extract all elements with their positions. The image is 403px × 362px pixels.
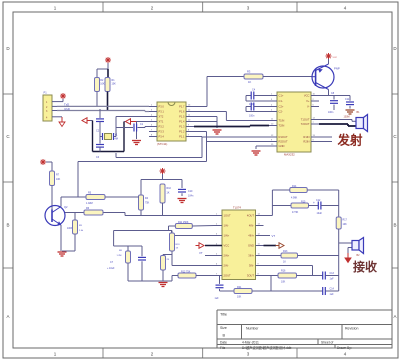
wire rail y230 from R11 junction: [114, 230, 172, 232]
title block text Revision: [345, 327, 358, 331]
resistor R21: [220, 286, 253, 299]
IC U2 MAX232 body: [269, 92, 319, 152]
resistor R6: [67, 207, 103, 230]
wire R7 to Q2: [51, 186, 53, 210]
svg-text:T1IN: T1IN: [279, 119, 285, 123]
wire R14 to right rail: [307, 190, 339, 217]
wire R2IN stub: [319, 141, 332, 143]
svg-text:10K: 10K: [100, 83, 105, 86]
svg-text:Q2: Q2: [64, 205, 68, 209]
svg-text:4IN-: 4IN-: [249, 224, 254, 228]
capacitor C8: [328, 92, 338, 114]
svg-text:R15: R15: [301, 201, 306, 204]
svg-text:VCC: VCC: [304, 94, 310, 98]
resistor R17: [336, 217, 347, 229]
wire T1IN from MCU: [194, 112, 269, 121]
wire 3IN- feedback: [264, 266, 313, 276]
svg-text:XT1: XT1: [159, 120, 164, 124]
wire R1OUT to MCU: [116, 137, 269, 158]
IC U2 label MAX232: [284, 153, 295, 157]
svg-text:R17: R17: [343, 219, 348, 222]
svg-text:T2IN: T2IN: [279, 124, 285, 128]
svg-text:RxD: RxD: [65, 107, 70, 111]
zone numbers top: [54, 6, 347, 11]
IC U2 pin names: [279, 94, 310, 149]
capacitor C4: [246, 89, 269, 107]
svg-text:1.02M: 1.02M: [86, 202, 93, 205]
resistor R19: [170, 231, 181, 252]
svg-text:1IN-: 1IN-: [224, 224, 229, 228]
svg-text:R12 75K: R12 75K: [181, 271, 191, 274]
transistor Q1 PNP: [312, 64, 340, 90]
svg-text:Title: Title: [220, 313, 227, 317]
svg-text:P1.5: P1.5: [179, 115, 185, 119]
svg-text:VCC: VCC: [333, 57, 338, 59]
svg-text:R3: R3: [247, 70, 251, 74]
svg-text:(STC11): (STC11): [157, 142, 167, 146]
svg-text:1K: 1K: [167, 192, 170, 195]
svg-text:2OUT: 2OUT: [224, 274, 232, 278]
svg-text:TL074: TL074: [233, 206, 241, 210]
wire 4OUT rail: [264, 190, 292, 216]
svg-text:GND: GND: [279, 144, 285, 148]
svg-text:2IN+: 2IN+: [224, 254, 230, 258]
resistor R9: [62, 213, 84, 252]
capacitor C1: [116, 122, 149, 132]
wire R10 down to 1OUT row: [162, 203, 164, 216]
power VCC left: [40, 159, 46, 165]
svg-text:75K: 75K: [145, 202, 150, 205]
resistor R4: [139, 195, 150, 216]
resistor R1: [105, 78, 116, 92]
resistor R10: [160, 184, 172, 203]
resistor R13: [281, 250, 298, 264]
svg-text:Sheet of: Sheet of: [321, 340, 333, 344]
svg-text:R1IN: R1IN: [303, 135, 309, 139]
svg-text:C11: C11: [345, 98, 350, 101]
wire 3IN+ row: [264, 255, 282, 257]
resistor R20: [161, 255, 173, 282]
label receive 接收: [353, 259, 377, 274]
svg-text:3IN+: 3IN+: [248, 254, 254, 258]
wire R3 to Q1 base: [263, 76, 312, 78]
title block text Number: [246, 327, 259, 331]
title block text Date row: [220, 340, 333, 344]
svg-text:VT: VT: [272, 234, 276, 238]
svg-text:103M: 103M: [344, 116, 350, 119]
IC U3 pin names: [224, 214, 255, 278]
svg-text:1uF: 1uF: [330, 293, 335, 296]
ground below arrow: [132, 122, 141, 145]
svg-text:B: B: [393, 223, 396, 228]
svg-text:4IN+: 4IN+: [248, 234, 254, 238]
wire rail down to R8 C7 tops: [114, 231, 142, 247]
svg-text:P1.3: P1.3: [179, 125, 185, 129]
svg-text:R2IN: R2IN: [303, 140, 309, 144]
wire TxD bus: [57, 102, 149, 106]
svg-text:File: File: [220, 346, 225, 350]
svg-text:4M: 4M: [115, 138, 118, 141]
capacitor C6: [215, 276, 224, 301]
ground below Q2: [58, 252, 67, 256]
svg-text:TxD: TxD: [64, 102, 69, 106]
wire crystal right rail: [116, 117, 149, 137]
svg-text:C2+: C2+: [279, 105, 284, 109]
resistor R12: [172, 271, 214, 282]
svg-text:Size: Size: [220, 326, 227, 330]
zone numbers bottom: [54, 352, 347, 357]
resistor R8: [117, 246, 131, 281]
wire bottoms to ground: [128, 280, 172, 282]
MCU U1 pin numbers: [151, 105, 191, 137]
svg-text:104n: 104n: [188, 195, 194, 198]
svg-text:10K: 10K: [56, 178, 61, 181]
capacitor C2: [96, 109, 104, 137]
svg-text:A: A: [393, 314, 396, 319]
svg-text:1uF: 1uF: [215, 297, 220, 300]
svg-text:1K: 1K: [283, 261, 286, 264]
svg-text:V-: V-: [307, 105, 310, 109]
svg-text:10K: 10K: [343, 223, 348, 226]
wire RxD bus: [57, 107, 149, 112]
svg-text:B: B: [6, 223, 9, 228]
svg-text:P3.0: P3.0: [159, 105, 165, 109]
power VCC at Q1 emitter: [326, 53, 338, 64]
svg-text:1uF: 1uF: [330, 278, 335, 281]
svg-text:T1OUT: T1OUT: [301, 118, 310, 122]
wire R17 down to speaker node: [338, 229, 340, 291]
svg-text:1OUT: 1OUT: [224, 214, 232, 218]
net label VT at 4IN+: [264, 234, 276, 238]
crystal Y1: [100, 133, 118, 141]
svg-text:4-Mar-2011: 4-Mar-2011: [242, 340, 259, 344]
wire VCC to R7: [46, 162, 52, 171]
ground arrow at U3 GND: [264, 243, 285, 249]
svg-text:10K: 10K: [281, 281, 286, 284]
transmit speaker B1: [356, 111, 368, 132]
svg-text:C14: C14: [330, 288, 335, 291]
power VCC at P1 pin1: [57, 93, 66, 102]
wire R16 to C13: [271, 276, 323, 292]
resistor R3: [244, 70, 263, 85]
svg-text:PNP: PNP: [334, 67, 340, 71]
svg-text:+: +: [313, 201, 315, 205]
svg-text:Date: Date: [220, 340, 227, 344]
svg-text:VCC: VCC: [224, 244, 230, 248]
svg-text:10K: 10K: [237, 296, 242, 299]
capacitor C7: [107, 246, 146, 281]
svg-text:4.99K: 4.99K: [291, 197, 298, 200]
wire R2 to TxD bus: [96, 92, 98, 107]
svg-text:10K: 10K: [112, 83, 117, 86]
ground arrow at P1 pin4: [57, 117, 65, 127]
svg-text:C13: C13: [330, 272, 335, 275]
MCU U1 label STC11: [157, 142, 167, 146]
MCU U1 body: [149, 102, 194, 141]
wire MAX232 GND pin to ground: [256, 146, 269, 149]
capacitor C3: [96, 137, 104, 160]
svg-text:P3.3: P3.3: [159, 130, 165, 134]
ground arrow receive: [345, 248, 351, 263]
wire MCU P1 to R3: [194, 77, 244, 107]
ground below C10: [178, 199, 187, 203]
svg-text:C10: C10: [188, 190, 193, 193]
title block frame: [217, 310, 392, 348]
wire R1IN stub: [319, 136, 332, 138]
svg-text:发射: 发射: [337, 133, 364, 148]
net label VT at 2IN+: [199, 251, 214, 256]
svg-text:+ 10uF: + 10uF: [107, 267, 115, 270]
svg-text:3IN-: 3IN-: [249, 264, 254, 268]
svg-text:C1-: C1-: [279, 99, 283, 103]
wire R5 to R4 column: [105, 196, 139, 198]
svg-text:Number: Number: [246, 327, 259, 331]
svg-text:Revision: Revision: [345, 327, 358, 331]
svg-text:R21: R21: [237, 286, 242, 289]
wire VCC mid rail: [141, 174, 182, 195]
wire crystal loop: [93, 121, 125, 152]
power VCC mid: [160, 168, 166, 174]
ground below MAX232: [252, 151, 261, 155]
svg-text:C2-: C2-: [279, 110, 283, 114]
svg-text:VT: VT: [199, 251, 203, 255]
svg-text:R1OUT: R1OUT: [279, 135, 288, 139]
capacitor C12: [309, 199, 339, 215]
svg-text:4OUT: 4OUT: [247, 214, 255, 218]
wire 3OUT to R16: [264, 275, 279, 277]
power VCC top: [105, 57, 111, 69]
svg-text:P1.1: P1.1: [179, 135, 185, 139]
svg-text:P3.1: P3.1: [159, 110, 165, 114]
zone column ticks: [103, 2, 297, 358]
ground mid bottom: [159, 283, 168, 287]
resistor R7: [50, 171, 61, 186]
power VCC arrow at U3: [196, 243, 223, 249]
wire to 1IN+: [172, 231, 215, 236]
wire 1OUT long row: [65, 213, 214, 216]
ground at MCU right: [194, 117, 222, 135]
resistor R14: [272, 185, 307, 200]
MCU U1 pin names: [159, 105, 186, 139]
zone letters right: [393, 46, 397, 319]
svg-text:R14: R14: [292, 185, 297, 188]
wire R2OUT to MCU: [78, 132, 269, 198]
svg-text:T2OUT: T2OUT: [301, 122, 310, 126]
svg-text:P1: P1: [44, 91, 48, 95]
svg-text:100n: 100n: [249, 115, 255, 118]
svg-text:R13: R13: [283, 250, 288, 253]
svg-text:D:\超声波测距\超声波测距设计.ddb: D:\超声波测距\超声波测距设计.ddb: [242, 345, 292, 350]
svg-text:XT2: XT2: [159, 115, 164, 119]
svg-text:接收: 接收: [353, 259, 377, 274]
title block text File row: [220, 345, 352, 350]
ground arrow left of crystal: [82, 118, 93, 124]
resistor R5: [86, 192, 105, 206]
svg-text:1.2M: 1.2M: [117, 255, 122, 257]
resistor R11: [169, 221, 215, 231]
svg-text:P3.2: P3.2: [159, 125, 165, 129]
IC U2 pin numbers: [271, 94, 316, 147]
wire VCC to R1 R2: [97, 69, 108, 78]
svg-text:R16: R16: [281, 270, 286, 273]
capacitor C10: [178, 189, 194, 197]
resistor R16: [278, 270, 297, 284]
wire T2OUT to transmit speaker thick: [319, 124, 356, 126]
wire R21 to C14: [252, 290, 323, 292]
wire Q1 collector down: [319, 90, 350, 96]
IC U3 TL074 body: [214, 210, 264, 280]
IC U3 pin numbers: [216, 214, 261, 276]
ground arrow mid crystal: [124, 119, 137, 125]
capacitor C13: [323, 272, 339, 281]
svg-text:P1.2: P1.2: [179, 130, 185, 134]
svg-text:10uF: 10uF: [317, 212, 323, 215]
label transmit 发射: [337, 133, 364, 148]
capacitor C14: [323, 287, 339, 296]
capacitor C11: [344, 96, 355, 119]
svg-text:V+: V+: [306, 99, 310, 103]
zone row ticks: [3, 94, 398, 268]
resistor R2: [95, 78, 105, 92]
svg-text:P3.4: P3.4: [159, 135, 165, 139]
wire T2IN thick: [194, 126, 269, 127]
svg-text:100n: 100n: [328, 111, 334, 114]
resistor R15: [291, 201, 309, 215]
transistor Q2 NPN: [45, 205, 68, 226]
wire T1OUT to transmit speaker: [319, 120, 356, 122]
svg-text:P1.6: P1.6: [179, 110, 185, 114]
title block text Size: [220, 326, 227, 338]
svg-text:2IN-: 2IN-: [224, 264, 229, 268]
zone letters left: [6, 46, 10, 319]
svg-text:C1+: C1+: [279, 94, 284, 98]
svg-text:MAX232: MAX232: [284, 153, 295, 157]
svg-text:R11 150K: R11 150K: [178, 221, 189, 224]
receive speaker B2: [339, 238, 364, 257]
wire Q2 collector to R5: [61, 197, 86, 207]
wire R1 to RxD bus: [107, 92, 109, 111]
svg-text:P1.4: P1.4: [179, 120, 185, 124]
svg-text:P1.7: P1.7: [179, 105, 185, 109]
svg-text:1K: 1K: [248, 80, 251, 84]
svg-text:3OUT: 3OUT: [247, 274, 255, 278]
svg-text:C12: C12: [316, 199, 321, 202]
capacitor C5: [246, 103, 269, 118]
IC U3 label TL074: [233, 206, 241, 210]
svg-text:R2OUT: R2OUT: [279, 140, 288, 144]
svg-text:A: A: [6, 314, 9, 319]
wire R19 to 2IN-: [172, 251, 214, 266]
wire XTAL row right segment: [137, 121, 150, 123]
svg-text:1IN+: 1IN+: [224, 234, 230, 238]
connector P1: [43, 91, 57, 122]
wire R13 to rail: [298, 255, 339, 257]
title block text Title: [220, 313, 227, 317]
svg-text:R10: R10: [167, 187, 172, 190]
wire Q2 emitter to ground: [60, 225, 62, 251]
ground below C11: [346, 110, 355, 114]
svg-text:Drawn By:: Drawn By:: [337, 346, 352, 350]
svg-text:47.5K: 47.5K: [292, 211, 299, 214]
svg-text:GND: GND: [248, 244, 254, 248]
